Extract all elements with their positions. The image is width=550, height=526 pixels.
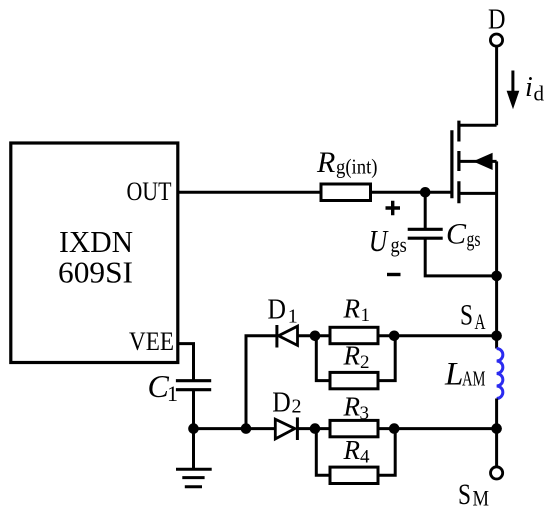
wire VEE pin to C1 (178, 344, 194, 381)
wire C1 bottom to ground rail (192, 390, 195, 429)
terminal D circle (490, 34, 502, 46)
inductor LAM coil (497, 349, 503, 399)
wire R2 left branch (316, 336, 330, 381)
current arrow id (507, 71, 520, 110)
junction R3R4 right (389, 423, 400, 434)
junction C1-ground (188, 423, 199, 434)
svg-text:R: R (343, 341, 361, 371)
svg-text:609SI: 609SI (58, 255, 133, 290)
svg-text:AM: AM (462, 367, 486, 391)
wire OUT pin to Rg(int) (178, 191, 322, 194)
junction R1R2 right (389, 331, 400, 342)
svg-text:S: S (460, 298, 473, 331)
svg-text:2: 2 (360, 352, 370, 373)
label D1 (268, 295, 298, 328)
svg-text:4: 4 (360, 447, 370, 468)
svg-text:R: R (343, 294, 361, 324)
wire Cgs bottom to source rail (425, 238, 496, 276)
junction branch node (241, 423, 252, 434)
label C1 (148, 368, 179, 406)
MOSFET Q1 body arrow (473, 153, 493, 170)
svg-text:g(int): g(int) (336, 155, 378, 179)
wire D2 to R3R4 (297, 427, 330, 430)
MOSFET Q1 source connection (459, 192, 497, 195)
wire branch node to D2 (246, 427, 275, 430)
junction node above SM (491, 423, 502, 434)
label LAM (444, 357, 486, 393)
diode D1 cathode bar (275, 325, 278, 348)
svg-text:i: i (525, 72, 533, 103)
svg-text:D: D (268, 295, 287, 326)
svg-text:D: D (488, 5, 506, 36)
svg-text:S: S (458, 478, 471, 511)
minus sign of Ugs (387, 273, 401, 276)
svg-text:d: d (534, 82, 545, 106)
junction R1R2 left (310, 331, 321, 342)
node label SA (460, 298, 486, 334)
svg-text:2: 2 (292, 396, 302, 418)
label R4 (343, 435, 371, 468)
wire R3 right to SM node (378, 427, 497, 430)
resistor Rg(int) body (321, 184, 371, 201)
label Ugs (369, 223, 407, 258)
wire gate node down to Cgs (424, 192, 427, 229)
resistor R2 body (330, 372, 378, 388)
svg-text:gs: gs (391, 232, 407, 257)
IC U1 IXDN609SI body (11, 143, 178, 363)
label Cgs (446, 218, 481, 252)
wire R4 right branch (378, 429, 395, 476)
wire D1 to R1R2 (298, 334, 331, 337)
svg-text:VEE: VEE (129, 327, 174, 356)
svg-text:1: 1 (288, 306, 298, 328)
capacitor Cgs plates (408, 229, 443, 238)
current label id (525, 72, 545, 106)
plus sign of Ugs (386, 201, 401, 215)
diode D2 cathode bar (296, 417, 299, 440)
label D2 (272, 388, 301, 419)
wire Rg(int) to gate (371, 191, 454, 194)
svg-text:OUT: OUT (127, 177, 172, 206)
MOSFET Q1 gate bar (450, 130, 453, 198)
wire branch node up to D1 row (246, 336, 277, 429)
ground symbol (176, 429, 212, 487)
MOSFET Q1 drain connection (459, 124, 497, 127)
svg-text:gs: gs (467, 226, 481, 251)
label R2 (343, 341, 370, 374)
svg-text:C: C (446, 218, 467, 251)
wire R4 left branch (316, 429, 330, 476)
svg-text:U: U (369, 223, 390, 258)
terminal SM circle (491, 467, 503, 479)
junction R3R4 left (310, 423, 321, 434)
MOSFET Q1 body line (459, 160, 497, 163)
wire source vertical rail (495, 161, 498, 348)
svg-text:3: 3 (360, 403, 370, 424)
label R3 (343, 392, 370, 425)
wire LAM to SM node (495, 399, 498, 467)
junction gate node (420, 187, 431, 198)
svg-text:L: L (444, 357, 463, 393)
terminal label SM (458, 478, 489, 511)
junction node SA (491, 331, 502, 342)
label R1 (343, 294, 371, 327)
resistor R1 body (330, 327, 378, 343)
svg-text:1: 1 (361, 305, 371, 326)
wire R2 right branch (378, 336, 395, 381)
resistor Rg(int) value label (316, 146, 378, 179)
svg-text:R: R (316, 146, 335, 179)
svg-text:R: R (343, 392, 361, 422)
MOSFET Q1 channel segments (457, 121, 460, 204)
diode D1 triangle (279, 326, 298, 345)
wire R1 right to node SA (378, 334, 497, 337)
wire ground rail to branch node (194, 427, 247, 430)
svg-text:A: A (475, 309, 486, 334)
resistor R3 body (330, 420, 378, 436)
IC U1 name IXDN 609SI (58, 224, 133, 290)
svg-text:R: R (343, 435, 361, 465)
svg-text:M: M (473, 486, 490, 511)
svg-text:1: 1 (167, 381, 178, 406)
svg-text:D: D (272, 388, 291, 419)
junction Cgs-source (491, 271, 502, 282)
resistor R4 body (330, 467, 378, 483)
diode D2 triangle (275, 419, 295, 439)
wire drain to terminal D (495, 46, 498, 125)
capacitor C1 plates (176, 381, 211, 390)
